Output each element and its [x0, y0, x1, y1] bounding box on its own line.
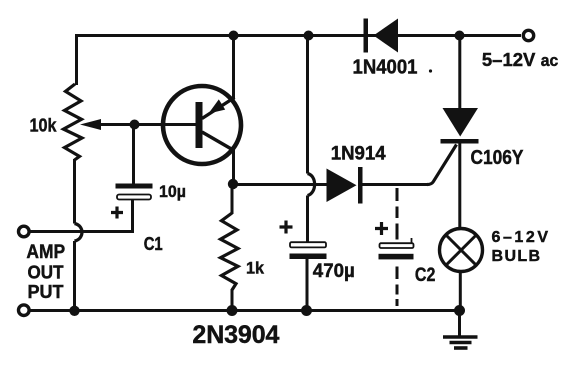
svg-text:470µ: 470µ: [313, 261, 355, 282]
svg-text:AMP: AMP: [26, 242, 65, 263]
svg-text:C1: C1: [144, 234, 163, 254]
svg-text:OUT: OUT: [28, 262, 64, 282]
svg-text:BULB: BULB: [492, 248, 541, 265]
svg-text:ac: ac: [541, 52, 559, 70]
svg-text:PUT: PUT: [28, 281, 65, 302]
svg-text:10k: 10k: [30, 115, 58, 136]
svg-text:1k: 1k: [246, 259, 265, 278]
svg-text:C2: C2: [415, 265, 436, 286]
svg-text:1N914: 1N914: [331, 143, 386, 165]
svg-text:10µ: 10µ: [159, 182, 186, 201]
svg-text:5–12V: 5–12V: [482, 49, 536, 70]
svg-text:2N3904: 2N3904: [192, 321, 279, 349]
svg-text:C106Y: C106Y: [471, 147, 525, 169]
svg-text:6–12V: 6–12V: [492, 229, 549, 246]
svg-text:1N4001: 1N4001: [353, 57, 418, 79]
